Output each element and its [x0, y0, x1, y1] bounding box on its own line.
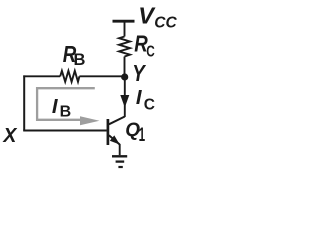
- svg-text:1: 1: [139, 125, 146, 146]
- svg-text:B: B: [60, 104, 72, 121]
- transistor Q1 emitter arrowhead: [110, 135, 120, 144]
- node Y: [121, 73, 128, 80]
- svg-text:X: X: [2, 124, 17, 147]
- current arrow IC: [120, 95, 129, 108]
- label IC: [136, 86, 155, 113]
- label Q1: [125, 120, 145, 146]
- label RC: [134, 31, 155, 61]
- resistor RC: [119, 37, 130, 57]
- emitter wire to ground: [119, 144, 121, 155]
- wire RC to node Y: [124, 57, 126, 78]
- supply VCC symbol: [113, 21, 135, 36]
- ground: [112, 156, 127, 167]
- svg-text:Y: Y: [132, 60, 146, 86]
- svg-text:C: C: [146, 43, 155, 60]
- left wire: [23, 75, 25, 130]
- transistor Q1 emitter: [109, 135, 120, 144]
- top wire Y to left corner: [23, 75, 124, 77]
- svg-text:CC: CC: [154, 14, 177, 31]
- svg-text:C: C: [144, 96, 155, 113]
- svg-text:B: B: [74, 51, 86, 69]
- transistor Q1 base bar: [107, 119, 110, 145]
- label IB: [52, 95, 71, 120]
- bottom wire to base: [23, 130, 106, 132]
- wire node Y down to collector: [124, 77, 126, 117]
- label VCC: [138, 2, 177, 31]
- transistor Q1 collector: [109, 117, 125, 125]
- label RB: [63, 41, 86, 69]
- resistor RB: [60, 71, 79, 82]
- current arrow IB (gray annotation): [37, 88, 99, 125]
